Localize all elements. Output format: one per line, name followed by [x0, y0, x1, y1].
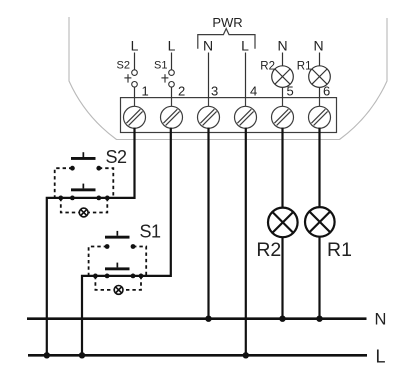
S2 lamp dashed wiring [61, 198, 79, 213]
lamp R2 (output symbol) [272, 53, 294, 98]
wire lamp R1 to N line [318, 237, 320, 319]
S1 indicator lamp [114, 286, 123, 295]
svg-text:L: L [241, 38, 249, 54]
svg-text:R2: R2 [256, 239, 281, 261]
wire terminal 5 to lamp R2 [281, 128, 283, 208]
wire terminal 1 to S2 block to L line [47, 128, 135, 356]
svg-text:N: N [375, 311, 387, 329]
S1 contact dots on wire [93, 274, 98, 279]
L line [28, 354, 367, 357]
wire terminal 4 to L line [245, 128, 247, 356]
svg-text:S1: S1 [140, 221, 162, 241]
N line [27, 317, 367, 320]
device outline [69, 17, 387, 140]
wire N input terminal 3 [208, 53, 210, 98]
pushbutton block S2: button 1 bar [71, 152, 96, 160]
lamp R1 (load) [305, 207, 335, 237]
screw terminal 5 [272, 106, 294, 128]
lamp R1 (output symbol) [309, 53, 331, 98]
junction dot S1-L [79, 352, 85, 358]
terminal block [121, 98, 337, 133]
junction dot S2-L [44, 352, 50, 358]
pushbutton block S2: button 2 bar [71, 184, 96, 192]
junction dot wire4-L [243, 352, 249, 358]
screw terminal 4 [235, 106, 257, 128]
pushbutton block S1: button 2 bar [105, 263, 130, 271]
svg-text:3: 3 [211, 84, 218, 99]
S1 dashed link right [133, 247, 146, 276]
S2 upper contact dots [70, 166, 75, 171]
switch S1 input symbol [161, 53, 174, 98]
pushbutton block S1: button 1 bar [105, 231, 130, 239]
svg-text:S2: S2 [117, 59, 130, 71]
wire terminal 3 to N line [207, 128, 209, 319]
switch S2 input symbol [124, 53, 137, 98]
S1 upper contact dots [105, 244, 110, 249]
wire terminal 6 to lamp R1 [318, 128, 320, 208]
S1 lamp dashed wiring [95, 276, 114, 290]
wire lamp R2 to N line [281, 237, 283, 319]
wire terminal 2 to S1 block to L line [82, 128, 171, 356]
S2 indicator lamp [79, 208, 88, 217]
svg-text:R1: R1 [327, 239, 352, 261]
wire L input terminal 4 [245, 53, 247, 98]
svg-text:4: 4 [250, 84, 257, 99]
svg-text:S2: S2 [106, 147, 128, 167]
S2 dashed link right [99, 168, 114, 198]
wire stubs inside terminal block [135, 98, 320, 107]
S2 contact dots on wire [58, 196, 63, 201]
screw terminal 2 [161, 106, 183, 128]
svg-text:S1: S1 [154, 59, 167, 71]
svg-text:L: L [131, 38, 139, 54]
svg-text:N: N [313, 38, 323, 54]
PWR bracket [198, 29, 255, 49]
lamp R2 (load) [268, 208, 298, 238]
svg-text:R1: R1 [297, 60, 312, 72]
svg-text:R2: R2 [260, 60, 275, 72]
junction dot R2-N [279, 316, 285, 322]
junction dot R1-N [316, 316, 322, 322]
junction dot wire3-N [205, 316, 211, 322]
svg-text:2: 2 [178, 84, 185, 99]
screw terminal 3 [198, 106, 220, 128]
svg-text:L: L [168, 38, 176, 54]
S1 dashed link left [89, 247, 108, 276]
S2 dashed link left [55, 168, 73, 198]
screw terminal 1 [124, 106, 146, 128]
screw terminal 6 [309, 106, 331, 128]
svg-text:N: N [277, 38, 287, 54]
svg-text:1: 1 [142, 84, 149, 99]
svg-text:N: N [203, 38, 213, 54]
svg-text:PWR: PWR [212, 15, 242, 30]
svg-text:L: L [376, 346, 386, 366]
